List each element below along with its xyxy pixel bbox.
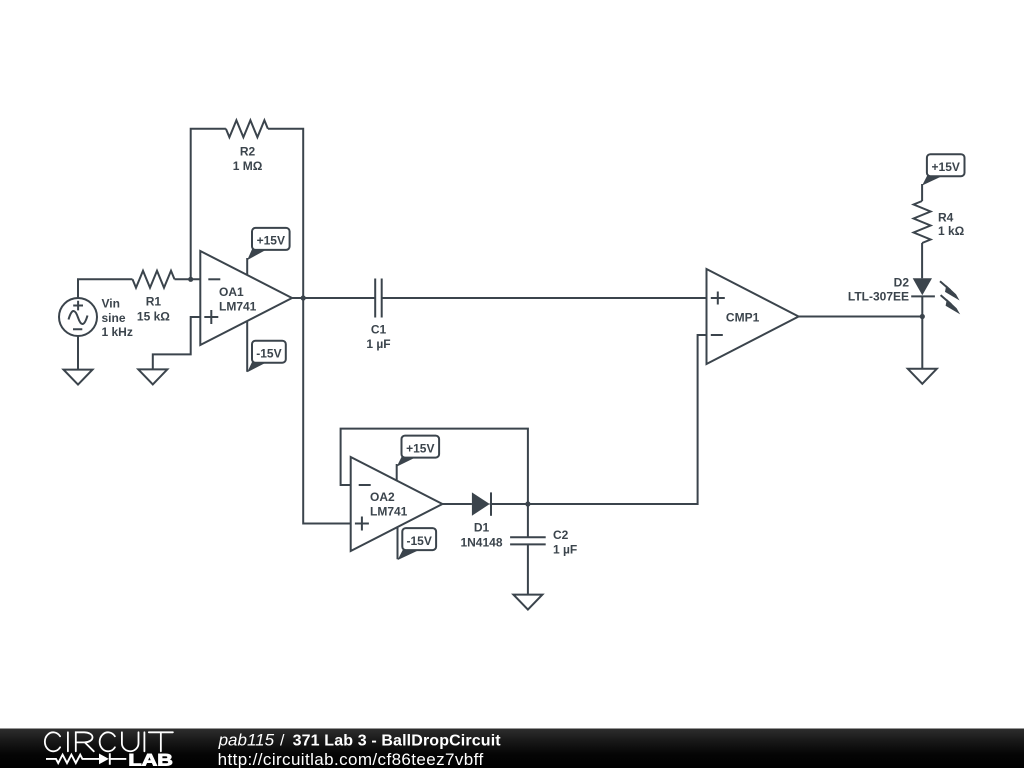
svg-text:sine: sine [102, 311, 126, 325]
svg-text:/: / [280, 732, 285, 749]
CircuitLab logo word CIRCUIT [45, 732, 173, 751]
ground under Vin [64, 370, 93, 385]
ground under D2 [908, 369, 937, 384]
svg-text:D2: D2 [894, 275, 910, 289]
svg-text:R2: R2 [240, 145, 256, 159]
svg-text:371 Lab 3 - BallDropCircuit: 371 Lab 3 - BallDropCircuit [293, 732, 502, 749]
wire CMP1 output to LED node [799, 316, 923, 318]
svg-text:C2: C2 [553, 528, 569, 542]
svg-text:1 µF: 1 µF [366, 337, 390, 351]
svg-text:R4: R4 [938, 210, 954, 224]
LED arrow 1 [940, 281, 960, 300]
wire feedback left branch up to R2 [191, 129, 226, 279]
svg-text:pab115: pab115 [218, 730, 275, 749]
svg-text:OA2: OA2 [370, 490, 395, 504]
label R1 15 kOhm [137, 295, 170, 324]
resistor R4 [914, 201, 931, 243]
svg-text:1 kΩ: 1 kΩ [938, 224, 965, 238]
label R2 1 MOhm [233, 145, 263, 174]
svg-text:+15V: +15V [257, 234, 285, 248]
svg-text:-15V: -15V [256, 346, 281, 360]
svg-text:1 µF: 1 µF [553, 543, 577, 557]
label R4 1 kOhm [938, 210, 965, 238]
op-amp OA2 [351, 457, 443, 551]
label Vin sine 1 kHz [102, 297, 133, 339]
svg-text:R1: R1 [146, 295, 162, 309]
svg-text:OA1: OA1 [219, 285, 244, 299]
wire C1 to CMP1 + input [382, 297, 707, 299]
wire R1 to OA1 inverting input [175, 278, 201, 280]
wire D2 cathode down to ground [921, 296, 923, 368]
wire R4 to D2 anode [921, 243, 923, 278]
svg-text:LM741: LM741 [370, 504, 408, 518]
wire OA2 output to D1 anode [442, 503, 472, 505]
svg-text:D1: D1 [474, 520, 490, 534]
svg-text:+15V: +15V [406, 441, 434, 455]
wire OA1 output node down to OA2 + input [303, 298, 351, 524]
power flag +15V right branch [922, 154, 964, 201]
node junction at R1/R2/OA1- [188, 277, 193, 282]
diode D1 [472, 492, 491, 515]
comparator CMP1 [707, 269, 799, 364]
LED D2 [911, 278, 935, 296]
LED arrow 2 [941, 295, 961, 314]
svg-text:1 MΩ: 1 MΩ [233, 159, 263, 173]
wire D1 cathode to CMP1 - input [490, 335, 707, 504]
svg-text:http://circuitlab.com/cf86teez: http://circuitlab.com/cf86teez7vbff [218, 750, 484, 768]
wire OA2 feedback loop (inverting input to diode cathode node) [341, 429, 528, 504]
power flag -15V on OA2 [398, 527, 437, 560]
label C1 1 uF [366, 322, 390, 351]
label OA1 LM741 [219, 285, 257, 313]
node junction at D1/C2/feedback [525, 501, 530, 506]
svg-text:15 kΩ: 15 kΩ [137, 309, 170, 323]
label D2 LTL-307EE [848, 275, 909, 303]
power flag +15V on OA1 [247, 228, 289, 275]
voltage source V1 (Vin sine 1 kHz) [59, 298, 97, 336]
CircuitLab logo diode symbol [99, 753, 126, 765]
resistor R2 [226, 120, 268, 137]
ground under OA1 + input [138, 369, 167, 384]
svg-text:+15V: +15V [932, 160, 960, 174]
svg-text:CMP1: CMP1 [726, 311, 760, 325]
wire OA1 output to C1 [292, 297, 375, 299]
node junction at OA1 output [301, 295, 306, 300]
power flag +15V on OA2 [397, 436, 439, 481]
label C2 1 uF [553, 528, 577, 557]
footer title line: pab115 / 371 Lab 3 - BallDropCircuit [218, 730, 502, 749]
wire Vin bottom to ground [77, 336, 79, 370]
wire OA1 + input to ground [153, 317, 201, 369]
svg-text:Vin: Vin [102, 297, 120, 311]
op-amp OA1 [200, 251, 292, 345]
node junction at CMP1 output / D2 [920, 314, 925, 319]
svg-text:C1: C1 [371, 322, 387, 336]
svg-text:1 kHz: 1 kHz [102, 325, 133, 339]
svg-text:LTL-307EE: LTL-307EE [848, 290, 909, 304]
label D1 1N4148 [460, 520, 502, 549]
resistor R1 [133, 271, 175, 288]
svg-text:LM741: LM741 [219, 299, 257, 313]
footer bar [0, 729, 1024, 768]
label OA2 LM741 [370, 490, 408, 518]
capacitor C1 [375, 279, 382, 318]
capacitor C2 [510, 504, 546, 595]
wire R2 right branch down to OA1 output node [268, 129, 303, 298]
power flag -15V on OA1 [247, 321, 286, 372]
CircuitLab logo resistor squiggle [46, 755, 99, 763]
wire Vin top to R1 [78, 279, 133, 299]
svg-text:-15V: -15V [407, 534, 432, 548]
svg-text:1N4148: 1N4148 [460, 535, 502, 549]
ground under C2 [513, 595, 542, 610]
svg-text:LAB: LAB [128, 751, 173, 768]
